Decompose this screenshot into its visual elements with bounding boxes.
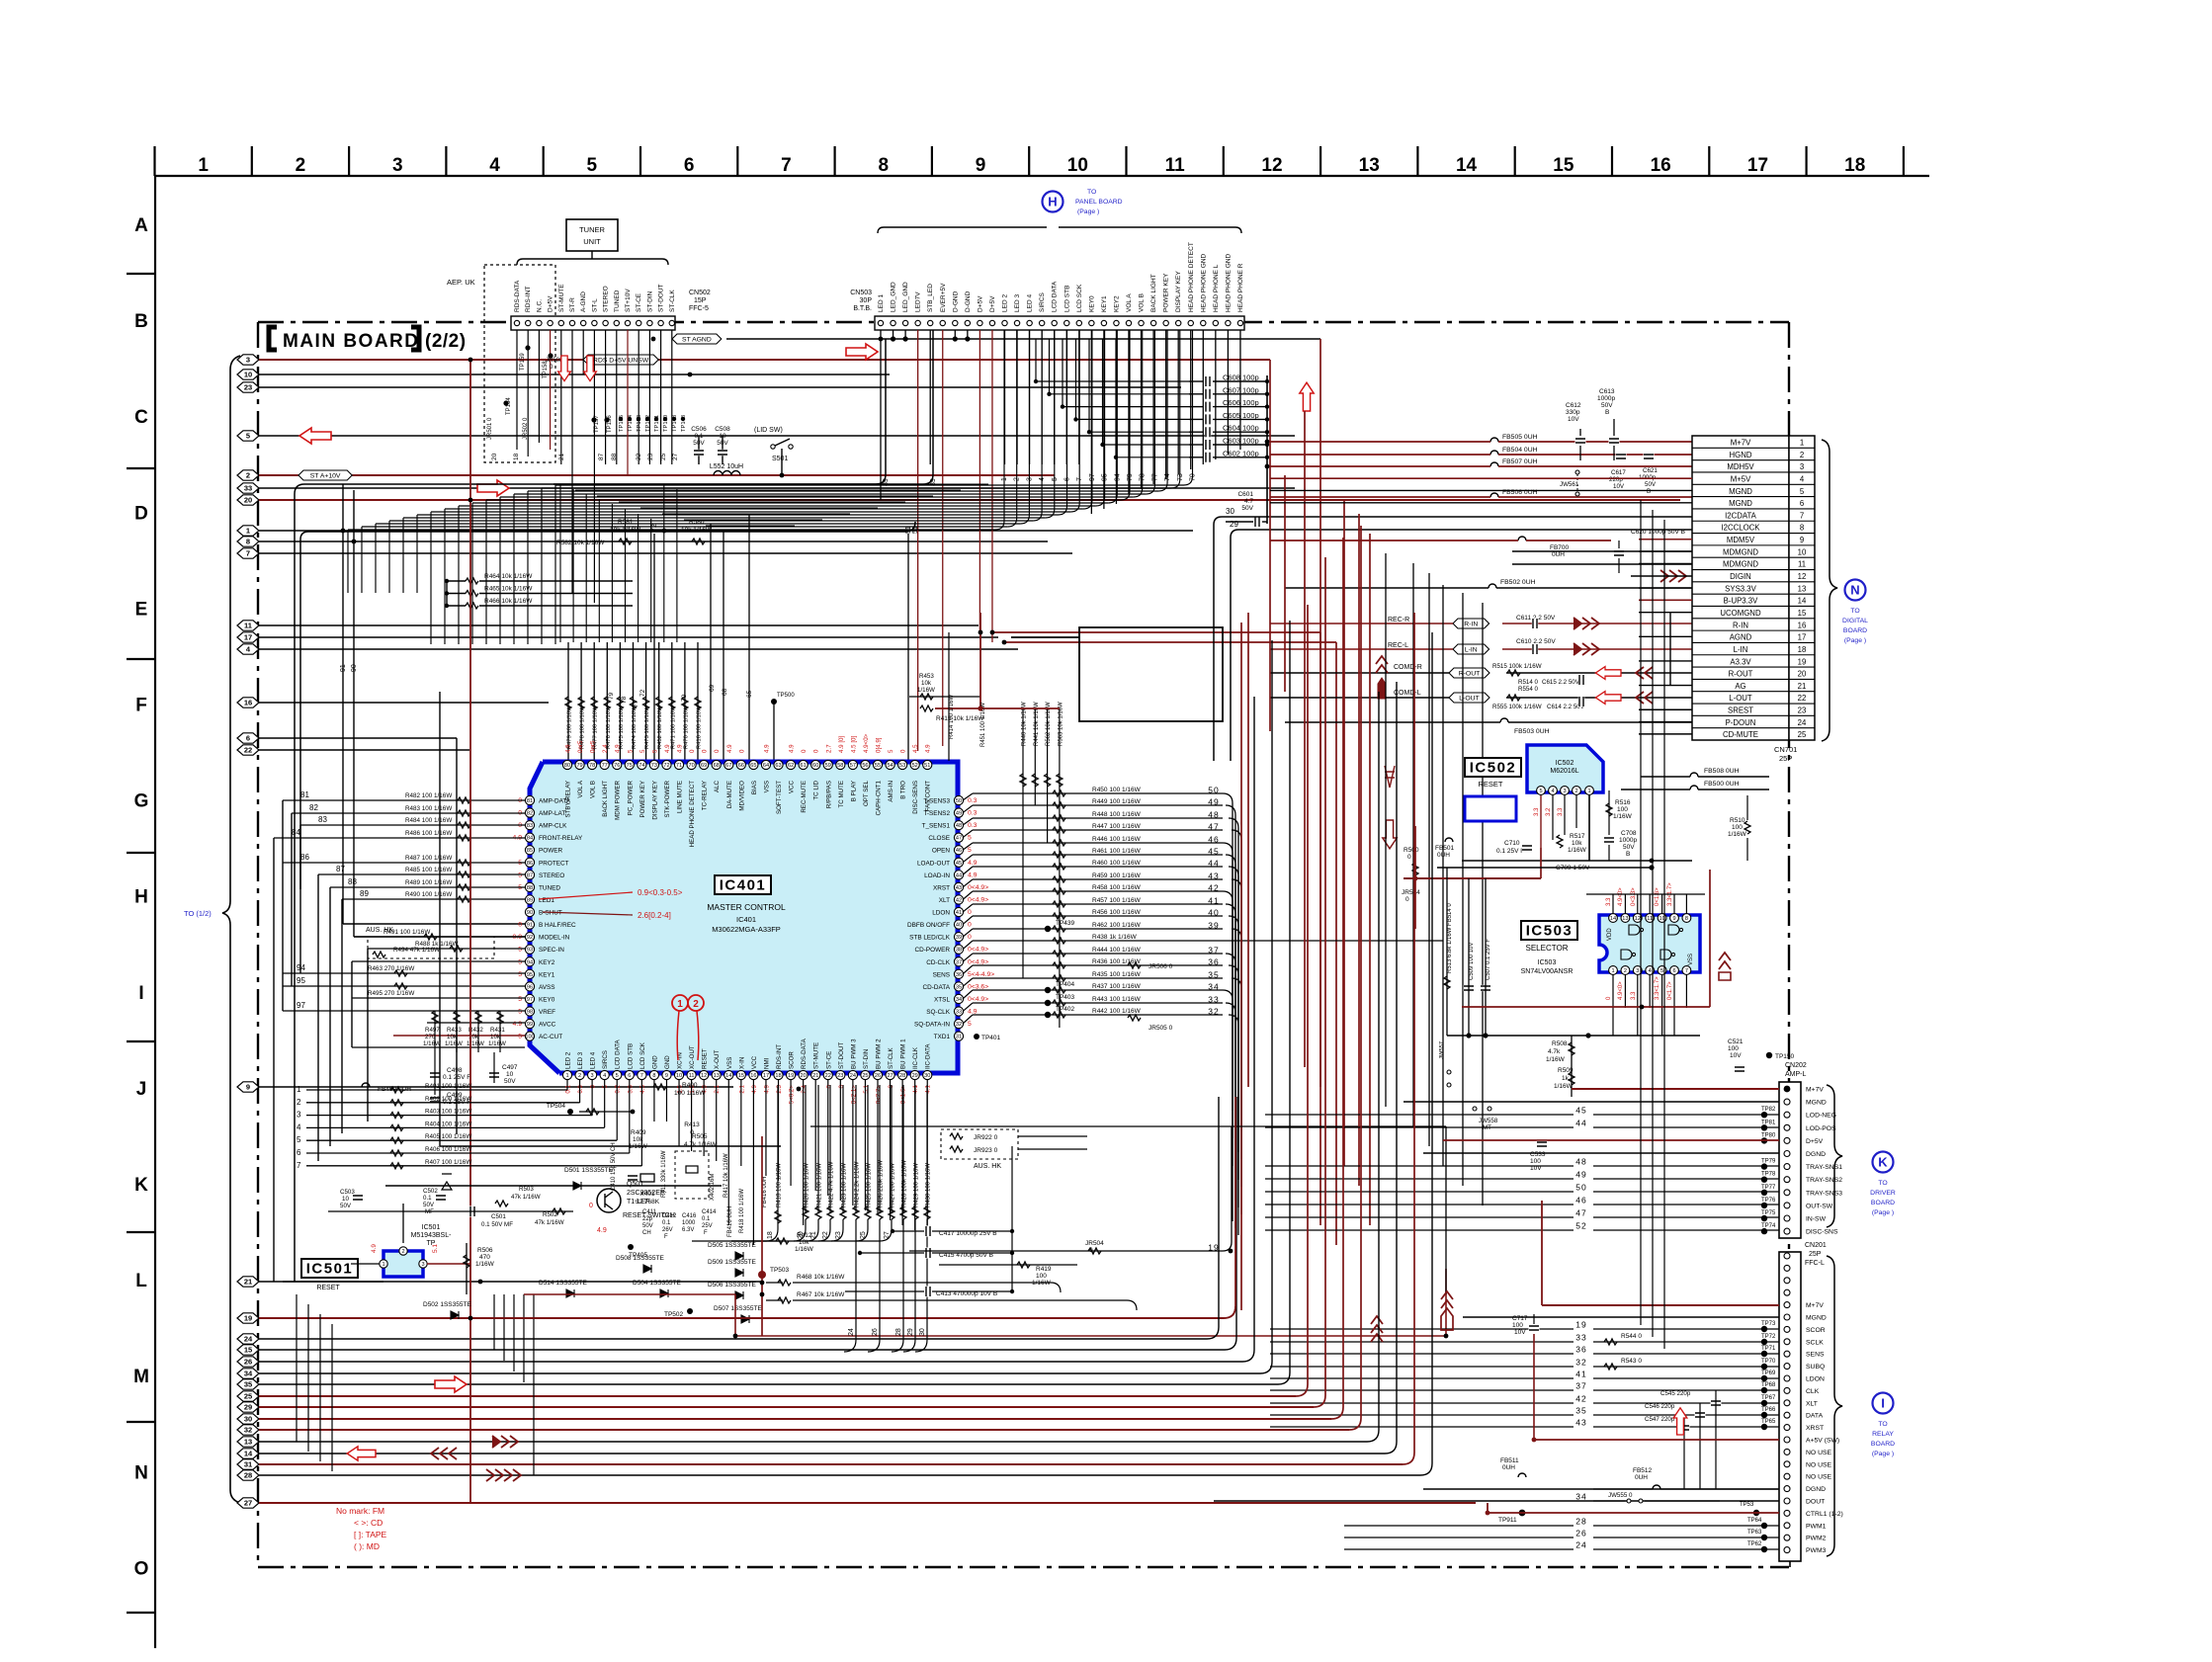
svg-text:14: 14 (244, 1450, 253, 1458)
svg-text:K: K (1878, 1155, 1888, 1170)
svg-text:100: 100 (525, 1035, 534, 1040)
svg-text:21: 21 (244, 1278, 252, 1287)
node H to panel board (1043, 192, 1063, 212)
svg-text:7: 7 (1685, 968, 1688, 974)
wire mesh above IC401 (553, 483, 988, 485)
svg-text:LCD SCK: LCD SCK (1076, 284, 1083, 312)
svg-text:JR504: JR504 (1085, 1240, 1104, 1247)
svg-text:DRIVER: DRIVER (1870, 1190, 1896, 1197)
svg-text:1: 1 (198, 155, 209, 176)
svg-text:DBFB ON/OFF: DBFB ON/OFF (907, 922, 950, 929)
svg-text:TP70: TP70 (1761, 1359, 1776, 1365)
svg-text:87: 87 (598, 453, 605, 460)
svg-text:R581: R581 (618, 519, 634, 526)
red callout circles 1 2 (672, 995, 688, 1011)
svg-text:R456 100 1/16W: R456 100 1/16W (1092, 909, 1142, 916)
svg-text:XLT: XLT (939, 897, 950, 904)
svg-text:10V: 10V (1613, 483, 1625, 490)
svg-text:AG: AG (1735, 682, 1745, 691)
svg-text:0: 0 (1405, 896, 1409, 903)
svg-text:0: 0 (813, 749, 820, 753)
svg-text:A: A (134, 215, 148, 236)
svg-text:90: 90 (527, 910, 533, 916)
svg-text:62: 62 (788, 763, 794, 769)
svg-text:B PLAY: B PLAY (850, 781, 857, 801)
svg-text:C613: C613 (1599, 388, 1615, 395)
svg-text:A-GND: A-GND (580, 291, 587, 312)
svg-text:TP157: TP157 (594, 415, 600, 433)
bus fan corners right side (1207, 1327, 1219, 1339)
wires reset area (283, 1281, 383, 1283)
svg-text:PWM3: PWM3 (1806, 1547, 1827, 1554)
svg-text:TP502: TP502 (664, 1311, 684, 1318)
svg-text:18: 18 (513, 453, 520, 460)
svg-text:0<4.9>: 0<4.9> (968, 884, 988, 891)
svg-text:LED 3: LED 3 (1014, 294, 1021, 312)
maroon up arrows right column (1376, 656, 1388, 664)
svg-text:9: 9 (665, 1073, 668, 1079)
svg-text:3.6: 3.6 (627, 1084, 634, 1093)
svg-text:MGND: MGND (1729, 499, 1752, 508)
svg-text:D-GND: D-GND (965, 291, 972, 312)
svg-text:4: 4 (603, 1073, 606, 1079)
svg-text:CN701: CN701 (1774, 745, 1797, 754)
svg-text:TP154: TP154 (628, 414, 634, 432)
svg-text:28: 28 (244, 1471, 252, 1480)
svg-text:1k: 1k (1562, 1075, 1570, 1082)
svg-text:R582 10k 1/16W: R582 10k 1/16W (556, 540, 605, 546)
svg-text:17: 17 (244, 633, 252, 642)
svg-text:26: 26 (875, 1073, 881, 1079)
svg-text:HEAD PHONE DETECT: HEAD PHONE DETECT (1188, 242, 1195, 312)
left feed resistors R482-R484 R486-R491 (283, 799, 525, 801)
svg-text:LCD DATA: LCD DATA (615, 1039, 622, 1069)
inductor L552 (714, 471, 740, 475)
svg-text:0<1.7>: 0<1.7> (1667, 981, 1673, 1000)
svg-text:C533: C533 (1530, 1151, 1546, 1158)
svg-text:GND: GND (664, 1055, 671, 1069)
svg-text:20: 20 (491, 453, 498, 460)
svg-text:R458 100 1/16W: R458 100 1/16W (1092, 884, 1142, 891)
svg-text:5: 5 (1539, 789, 1542, 794)
svg-text:IC503: IC503 (1538, 959, 1557, 966)
svg-text:LED 3: LED 3 (577, 1051, 584, 1069)
svg-text:1/16W: 1/16W (917, 687, 935, 694)
testpoint TP503 maroon riser (758, 1271, 766, 1279)
svg-text:2: 2 (297, 1098, 301, 1107)
svg-text:50V: 50V (1601, 402, 1613, 409)
svg-text:NMI: NMI (763, 1057, 770, 1069)
svg-text:R510: R510 (1730, 817, 1745, 824)
svg-text:R-OUT: R-OUT (1459, 670, 1481, 677)
svg-text:0<4.9>: 0<4.9> (968, 947, 988, 954)
svg-text:14: 14 (725, 1073, 731, 1079)
CN202 testpoints (1761, 1112, 1767, 1118)
arrow near CN503 (846, 344, 878, 360)
svg-text:0.3: 0.3 (968, 797, 978, 804)
svg-text:4: 4 (1649, 968, 1652, 974)
svg-text:TP63: TP63 (1747, 1530, 1762, 1536)
svg-text:16: 16 (1798, 621, 1807, 629)
svg-text:14: 14 (1610, 916, 1616, 922)
svg-text:R468 10k 1/16W: R468 10k 1/16W (797, 1274, 845, 1281)
svg-text:TP74: TP74 (1761, 1223, 1776, 1229)
svg-text:49: 49 (1575, 1170, 1586, 1180)
svg-text:2.1: 2.1 (714, 1084, 721, 1093)
svg-text:I2CCLOCK: I2CCLOCK (1722, 524, 1761, 533)
svg-text:93: 93 (527, 948, 533, 954)
svg-text:I: I (1881, 1396, 1885, 1411)
svg-text:47: 47 (1575, 1208, 1586, 1218)
svg-text:50V: 50V (504, 1078, 516, 1085)
svg-text:IC503: IC503 (1526, 923, 1574, 940)
CN201 power wires (1542, 1304, 1779, 1306)
svg-text:R436 100 1/16W: R436 100 1/16W (1092, 958, 1142, 965)
svg-text:1: 1 (246, 527, 250, 536)
svg-text:43: 43 (956, 885, 962, 891)
svg-text:UCOMGND: UCOMGND (1720, 609, 1761, 618)
svg-text:16: 16 (750, 1073, 756, 1079)
svg-text:R400: R400 (682, 1082, 698, 1089)
svg-text:R442 100 1/16W: R442 100 1/16W (1092, 1008, 1142, 1015)
dashed option box JR922 JR923 (941, 1129, 1018, 1159)
svg-text:1/16W: 1/16W (795, 1246, 814, 1253)
vertical rails left of IC401 (273, 838, 275, 1282)
node K to driver board (1873, 1152, 1894, 1173)
svg-text:48: 48 (956, 823, 962, 829)
CN202 power wires (1572, 1088, 1779, 1090)
svg-text:STEREO: STEREO (539, 873, 564, 879)
svg-text:2.4: 2.4 (602, 744, 609, 753)
svg-text:0.1: 0.1 (565, 1084, 572, 1093)
svg-text:LED 4: LED 4 (590, 1051, 597, 1069)
svg-text:67: 67 (725, 763, 731, 769)
svg-text:XLT: XLT (1806, 1400, 1818, 1407)
svg-text:30: 30 (244, 1415, 252, 1424)
svg-text:3: 3 (591, 1073, 594, 1079)
bead FB503 (1500, 718, 1508, 722)
svg-text:CN502: CN502 (689, 290, 711, 296)
svg-text:IIC-DATA: IIC-DATA (925, 1043, 932, 1069)
ic IC502 spare blue box (1465, 796, 1516, 821)
svg-text:4.9: 4.9 (664, 744, 671, 753)
svg-text:4: 4 (1800, 474, 1805, 483)
svg-text:51: 51 (924, 763, 930, 769)
svg-text:1/16W: 1/16W (1554, 1083, 1574, 1090)
svg-text:C508: C508 (715, 426, 730, 433)
svg-text:DIGIN: DIGIN (1730, 572, 1751, 581)
svg-text:0.2: 0.2 (615, 1084, 622, 1093)
arrows COMD (1595, 667, 1621, 680)
svg-text:36: 36 (956, 972, 962, 978)
svg-text:19: 19 (1798, 657, 1807, 666)
svg-text:BOARD: BOARD (1871, 1200, 1895, 1206)
svg-text:2: 2 (296, 155, 306, 176)
svg-text:TP150: TP150 (1775, 1053, 1795, 1060)
svg-text:66: 66 (738, 763, 744, 769)
svg-text:IC401: IC401 (736, 915, 756, 924)
svg-text:5: 5 (602, 1084, 609, 1088)
svg-text:54: 54 (887, 763, 893, 769)
svg-text:TP504: TP504 (547, 1103, 566, 1110)
svg-text:51: 51 (905, 526, 912, 534)
svg-text:10V: 10V (1730, 1052, 1742, 1059)
black vertical rails right column (1385, 553, 1387, 1107)
svg-text:D502 1SS355TE: D502 1SS355TE (423, 1301, 471, 1308)
ferrite bead FB499 (362, 1083, 370, 1087)
svg-text:C717: C717 (1512, 1315, 1528, 1322)
svg-text:99: 99 (527, 1022, 533, 1028)
svg-text:4.9: 4.9 (968, 860, 978, 867)
svg-text:29: 29 (912, 1073, 918, 1079)
svg-text:97: 97 (297, 1001, 305, 1010)
svg-text:3.3: 3.3 (1606, 897, 1612, 906)
svg-text:F: F (135, 696, 147, 716)
svg-text:TP72: TP72 (1761, 1334, 1776, 1340)
svg-text:95: 95 (297, 976, 305, 985)
svg-text:R435 100 1/16W: R435 100 1/16W (1092, 971, 1142, 978)
svg-text:33: 33 (244, 484, 252, 493)
svg-text:R437 100 1/16W: R437 100 1/16W (1092, 983, 1142, 990)
svg-text:C621: C621 (1643, 467, 1658, 474)
svg-text:13: 13 (714, 1073, 720, 1079)
svg-text:R487 100 1/16W: R487 100 1/16W (405, 855, 452, 862)
svg-text:ST-L: ST-L (591, 298, 598, 312)
svg-text:R409: R409 (631, 1129, 646, 1136)
svg-text:TO: TO (1878, 1180, 1887, 1187)
svg-text:32: 32 (1208, 1007, 1219, 1017)
svg-text:47: 47 (1208, 822, 1219, 832)
svg-text:87: 87 (336, 865, 345, 873)
svg-text:R452 100 1/16W: R452 100 1/16W (657, 706, 663, 749)
svg-text:M: M (133, 1367, 149, 1387)
svg-text:HEAD PHONE L: HEAD PHONE L (1213, 264, 1220, 312)
svg-text:SQ-DATA-IN: SQ-DATA-IN (914, 1022, 950, 1029)
svg-text:0: 0 (518, 922, 522, 929)
testpoint TP401 (974, 1034, 979, 1039)
svg-text:21: 21 (812, 1073, 818, 1079)
svg-text:ST-CLK: ST-CLK (669, 290, 676, 312)
svg-text:3.3: 3.3 (1631, 991, 1637, 1000)
svg-text:REC-R: REC-R (1388, 617, 1409, 623)
svg-text:KEY2: KEY2 (1113, 295, 1120, 312)
svg-text:RDS D+5V UNSW: RDS D+5V UNSW (593, 357, 649, 364)
svg-text:MDM5V: MDM5V (1727, 536, 1755, 544)
svg-text:31: 31 (244, 1460, 252, 1469)
svg-text:XC-OUT: XC-OUT (689, 1045, 696, 1069)
svg-text:25: 25 (660, 453, 667, 460)
svg-text:FFC-L: FFC-L (1805, 1260, 1825, 1267)
svg-text:R475 100 1/16W: R475 100 1/16W (619, 706, 625, 749)
svg-text:LED 4: LED 4 (1027, 294, 1034, 312)
svg-text:26: 26 (1575, 1529, 1586, 1538)
svg-text:M51943BSL-: M51943BSL- (411, 1232, 453, 1239)
svg-text:JR506 0: JR506 0 (1149, 963, 1173, 970)
svg-text:KEY0: KEY0 (539, 996, 555, 1003)
svg-text:75: 75 (627, 763, 633, 769)
svg-text:10: 10 (342, 1196, 349, 1203)
svg-text:1/16W: 1/16W (1546, 1056, 1566, 1063)
svg-text:25P: 25P (1809, 1251, 1822, 1258)
svg-text:SQ-CLK: SQ-CLK (926, 1009, 951, 1016)
svg-text:4: 4 (297, 1122, 301, 1131)
svg-text:94: 94 (527, 959, 533, 965)
left edge net arrows and bus wires (237, 355, 259, 365)
svg-text:10k 1/16W: 10k 1/16W (681, 527, 713, 534)
svg-text:16: 16 (244, 699, 252, 707)
svg-text:(LID SW): (LID SW) (754, 427, 783, 434)
svg-text:( ): MD: ( ): MD (354, 1541, 380, 1551)
svg-text:CN503: CN503 (850, 290, 872, 296)
svg-text:B: B (1626, 851, 1630, 858)
svg-text:88: 88 (611, 453, 618, 460)
svg-text:15: 15 (1798, 609, 1807, 618)
svg-text:27: 27 (244, 1499, 252, 1508)
svg-text:8: 8 (1685, 916, 1688, 922)
svg-text:0UH: 0UH (1635, 1474, 1648, 1481)
svg-text:NO USE: NO USE (1806, 1450, 1832, 1456)
svg-text:AMS-IN: AMS-IN (888, 781, 894, 802)
svg-text:5: 5 (627, 749, 634, 753)
svg-text:5.1: 5.1 (863, 1084, 870, 1093)
svg-text:IC401: IC401 (720, 877, 767, 894)
svg-text:26V: 26V (662, 1227, 673, 1233)
svg-text:C507 0.1 25V F: C507 0.1 25V F (1486, 939, 1491, 980)
svg-text:T-SENS3: T-SENS3 (923, 798, 950, 805)
svg-text:REC-L: REC-L (1388, 642, 1408, 649)
ic IC503 pins (1609, 914, 1618, 923)
svg-text:5<4-4.9>: 5<4-4.9> (968, 971, 994, 978)
svg-text:R479 100 1/16W: R479 100 1/16W (567, 706, 573, 749)
svg-text:24: 24 (1798, 718, 1807, 727)
svg-text:1: 1 (565, 1073, 568, 1079)
svg-text:0or5: 0or5 (577, 740, 584, 753)
svg-text:HEAD PHONE R: HEAD PHONE R (1237, 263, 1244, 312)
svg-text:KEY0: KEY0 (1088, 295, 1095, 312)
svg-text:10k: 10k (490, 1034, 501, 1040)
svg-text:89: 89 (360, 889, 369, 898)
svg-text:TRAY-SNS2: TRAY-SNS2 (1806, 1177, 1842, 1184)
svg-text:57: 57 (850, 763, 856, 769)
svg-text:4.7k: 4.7k (1548, 1048, 1561, 1055)
svg-text:VCC: VCC (751, 1055, 758, 1069)
svg-text:R450 100 1/16W: R450 100 1/16W (1092, 787, 1142, 793)
svg-text:4: 4 (1551, 789, 1554, 794)
testpoint TP405 (628, 1244, 634, 1250)
svg-text:SELECTOR: SELECTOR (1526, 944, 1569, 953)
svg-text:VREF: VREF (539, 1009, 555, 1016)
svg-text:FB512: FB512 (1633, 1467, 1653, 1474)
svg-text:5: 5 (968, 847, 972, 854)
svg-text:2.3: 2.3 (776, 1084, 783, 1093)
svg-text:SN74LV00ANSR: SN74LV00ANSR (1521, 968, 1574, 975)
svg-text:R502: R502 (543, 1211, 557, 1218)
svg-text:SIRCS: SIRCS (1039, 291, 1046, 312)
svg-text:R447 100 1/16W: R447 100 1/16W (1092, 823, 1142, 830)
board outline frame (258, 321, 1789, 323)
svg-text:0: 0 (968, 934, 972, 941)
svg-text:L552 10uH: L552 10uH (710, 463, 743, 470)
svg-text:FB502 0UH: FB502 0UH (1500, 579, 1536, 586)
svg-text:M62016L: M62016L (1550, 768, 1578, 775)
svg-text:LOD-POS: LOD-POS (1806, 1125, 1836, 1132)
svg-text:470: 470 (479, 1254, 490, 1261)
svg-text:1: 1 (677, 999, 683, 1010)
svg-text:JR502 0: JR502 0 (523, 417, 529, 440)
svg-text:T1-LEF: T1-LEF (627, 1199, 649, 1205)
svg-text:FB500 0UH: FB500 0UH (1704, 781, 1740, 788)
svg-text:48: 48 (1208, 810, 1219, 820)
svg-text:D-GND: D-GND (952, 291, 959, 312)
svg-text:R515 100k 1/16W: R515 100k 1/16W (1492, 663, 1542, 670)
svg-text:89: 89 (527, 897, 533, 903)
svg-text:POWER KEY: POWER KEY (1163, 273, 1170, 312)
svg-text:IC501: IC501 (306, 1261, 354, 1278)
svg-text:TRAY-SNS1: TRAY-SNS1 (1806, 1164, 1842, 1171)
svg-text:H: H (1048, 195, 1057, 209)
svg-text:4: 4 (489, 155, 500, 176)
svg-text:CD-CLK: CD-CLK (926, 959, 951, 966)
svg-text:0.1 25V F: 0.1 25V F (1496, 848, 1524, 855)
svg-text:R401 100 1/16W: R401 100 1/16W (425, 1083, 471, 1090)
svg-text:50V: 50V (1241, 505, 1253, 512)
svg-text:MD/VIDEO: MD/VIDEO (738, 781, 745, 811)
svg-text:C509 100 10V: C509 100 10V (1469, 943, 1475, 980)
svg-text:LOD-NEG: LOD-NEG (1806, 1113, 1836, 1120)
svg-text:39: 39 (1208, 921, 1219, 931)
svg-text:X-IN: X-IN (738, 1057, 745, 1069)
svg-text:5: 5 (518, 958, 522, 965)
left feed resistors R491 R488 R494 (354, 936, 525, 938)
svg-text:R446 100 1/16W: R446 100 1/16W (1092, 836, 1142, 843)
svg-text:45: 45 (956, 861, 962, 867)
svg-text:52: 52 (1575, 1221, 1586, 1231)
svg-text:JR923 0: JR923 0 (974, 1147, 998, 1154)
svg-text:T_SENS1: T_SENS1 (922, 823, 951, 830)
svg-text:DISC-SNS: DISC-SNS (1806, 1229, 1838, 1236)
svg-text:0: 0 (825, 1084, 832, 1088)
svg-text:X402 16M: X402 16M (710, 1174, 716, 1201)
svg-text:100: 100 (1728, 1045, 1739, 1052)
svg-text:R482 100 1/16W: R482 100 1/16W (405, 792, 452, 799)
svg-text:HEAD PHONE GND: HEAD PHONE GND (1225, 253, 1232, 312)
svg-text:R506: R506 (477, 1247, 493, 1254)
svg-text:77: 77 (633, 700, 639, 707)
svg-text:1/16W: 1/16W (1568, 847, 1587, 854)
svg-text:73: 73 (651, 763, 657, 769)
svg-text:J: J (136, 1079, 147, 1100)
svg-text:BU PWM 2: BU PWM 2 (876, 1039, 883, 1069)
svg-text:LCD SCK: LCD SCK (639, 1041, 646, 1069)
svg-text:47k 1/16W: 47k 1/16W (511, 1194, 541, 1201)
svg-text:4.9: 4.9 (751, 1084, 758, 1093)
svg-text:17: 17 (1747, 155, 1768, 176)
svg-text:TP76: TP76 (1761, 1198, 1776, 1204)
svg-text:Q501: Q501 (627, 1181, 643, 1188)
svg-text:DOUT: DOUT (1806, 1499, 1825, 1506)
svg-text:2.7: 2.7 (825, 744, 832, 753)
arrow on bus 5 (299, 428, 331, 444)
dashed crystal X402 (675, 1151, 709, 1199)
svg-text:AVSS: AVSS (539, 984, 555, 991)
svg-text:10k: 10k (633, 1136, 643, 1143)
svg-text:46: 46 (956, 848, 962, 854)
svg-text:FB416 0UH: FB416 0UH (727, 1206, 733, 1237)
svg-text:OPT SEL: OPT SEL (863, 780, 870, 806)
svg-text:LED_GND: LED_GND (902, 282, 909, 312)
svg-text:TP67: TP67 (1761, 1395, 1776, 1401)
svg-text:4.9: 4.9 (677, 744, 684, 753)
